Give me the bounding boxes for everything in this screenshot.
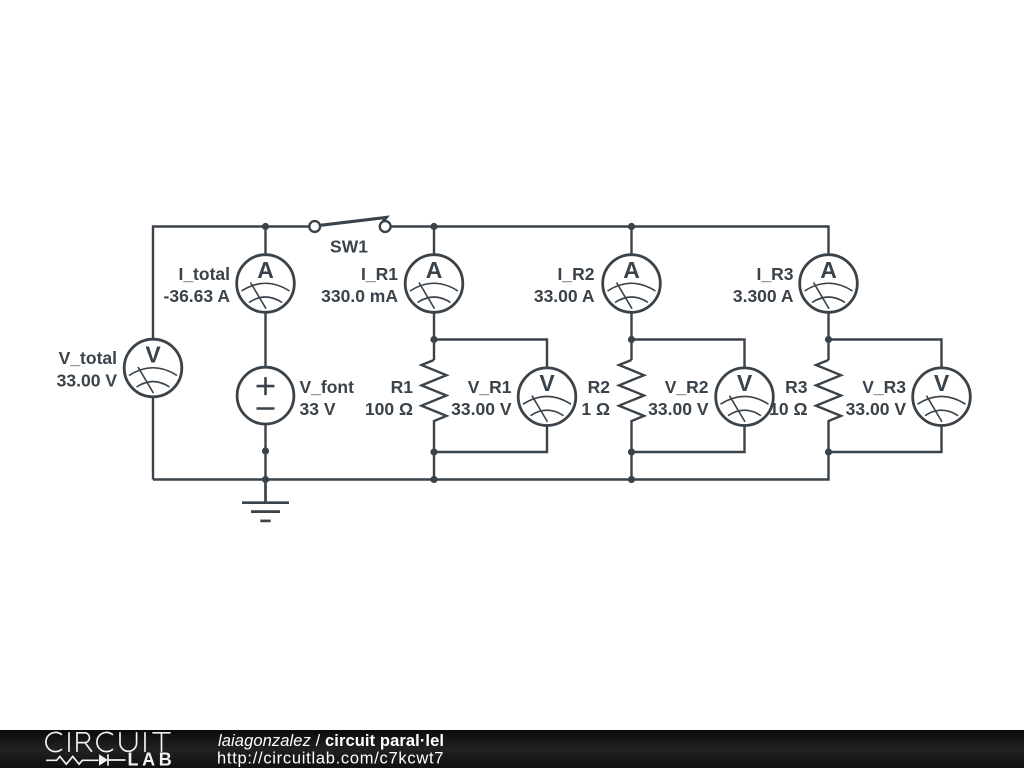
wire V_R2 loop top [632, 340, 745, 368]
junction node top rail R1 [430, 223, 437, 230]
svg-text:10 Ω: 10 Ω [769, 399, 807, 419]
wire branch A ammeter top [264, 227, 266, 255]
svg-text:I_R2: I_R2 [558, 264, 595, 284]
ammeter I_R3 [800, 255, 858, 313]
svg-text:A: A [623, 257, 640, 283]
voltmeter V_total [124, 339, 182, 397]
junction node below source [262, 447, 269, 454]
junction node D top [825, 336, 832, 343]
wire branch C node to rail [630, 452, 632, 480]
svg-text:V: V [539, 370, 555, 396]
svg-text:LAB: LAB [128, 750, 176, 768]
voltage source V_font [237, 367, 294, 424]
ammeter I_R2 [603, 255, 661, 313]
wire left rail upper [153, 227, 309, 340]
svg-text:R3: R3 [785, 377, 808, 397]
ammeter I_total [237, 255, 295, 313]
svg-text:33.00 V: 33.00 V [846, 399, 907, 419]
junction node B bottom [430, 448, 437, 455]
svg-text:3.300 A: 3.300 A [733, 286, 794, 306]
logo resistor-diode squiggle [46, 754, 126, 765]
svg-text:http://circuitlab.com/c7kcwt7: http://circuitlab.com/c7kcwt7 [217, 749, 444, 767]
svg-text:330.0 mA: 330.0 mA [321, 286, 398, 306]
svg-text:SW1: SW1 [330, 237, 368, 257]
switch SW1 [309, 217, 390, 232]
wire branch C top [630, 227, 632, 255]
wire branch C resistor to node [630, 431, 632, 452]
svg-text:V_R3: V_R3 [862, 377, 906, 397]
wire branch D ammeter to node [827, 312, 829, 339]
wire bottom rail [153, 452, 829, 480]
svg-text:1 Ω: 1 Ω [581, 399, 610, 419]
svg-text:I_total: I_total [178, 264, 230, 284]
wire branch A ammeter to source [264, 312, 266, 367]
wire V_R1 loop bottom [434, 426, 547, 452]
junction node bottom rail R2 [628, 476, 635, 483]
svg-text:R2: R2 [588, 377, 611, 397]
svg-text:R1: R1 [391, 377, 414, 397]
wire branch A source to rail [264, 424, 266, 480]
resistor R1 [422, 360, 447, 431]
wire top rail left segment [152, 397, 154, 480]
footer bar [0, 730, 1024, 768]
svg-text:I_R1: I_R1 [361, 264, 398, 284]
svg-text:33 V: 33 V [300, 399, 336, 419]
junction node C top [628, 336, 635, 343]
svg-text:33.00 V: 33.00 V [648, 399, 709, 419]
voltmeter V_R3 [913, 368, 971, 426]
junction node top rail R2 [628, 223, 635, 230]
wire branch B node to resistor [433, 340, 435, 361]
wire branch B top [433, 227, 435, 255]
wire V_R3 loop bottom [829, 426, 942, 452]
junction node C bottom [628, 448, 635, 455]
svg-text:I_R3: I_R3 [757, 264, 794, 284]
svg-text:-36.63 A: -36.63 A [164, 286, 231, 306]
svg-text:33.00 A: 33.00 A [534, 286, 595, 306]
svg-text:V_font: V_font [300, 377, 355, 397]
wire branch C node to resistor [630, 340, 632, 361]
logo CIRCUIT text [46, 732, 170, 751]
wire top rail right of switch [391, 227, 829, 255]
junction node bottom rail R1 [430, 476, 437, 483]
svg-text:V: V [737, 370, 753, 396]
resistor R3 [816, 360, 841, 431]
wire branch B ammeter to node [433, 312, 435, 339]
resistor R2 [619, 360, 644, 431]
junction node top rail I_total [262, 223, 269, 230]
junction node D bottom [825, 448, 832, 455]
svg-text:V_R1: V_R1 [468, 377, 512, 397]
wire V_R2 loop bottom [632, 426, 745, 452]
junction node B top [430, 336, 437, 343]
svg-text:V_total: V_total [59, 348, 117, 368]
svg-text:33.00 V: 33.00 V [451, 399, 512, 419]
svg-text:A: A [426, 257, 443, 283]
wire branch D resistor to node [827, 431, 829, 452]
ground [242, 480, 289, 521]
svg-text:V: V [934, 370, 950, 396]
wire V_R3 loop top [829, 340, 942, 368]
svg-text:33.00 V: 33.00 V [57, 370, 118, 390]
wire branch B node to rail [433, 452, 435, 480]
ammeter I_R1 [405, 255, 463, 313]
wire V_R1 loop top [434, 340, 547, 368]
voltmeter V_R1 [518, 368, 576, 426]
svg-text:laiagonzalez / circuit paral·l: laiagonzalez / circuit paral·lel [218, 732, 444, 750]
svg-text:A: A [257, 257, 274, 283]
voltmeter V_R2 [716, 368, 774, 426]
svg-text:A: A [820, 257, 837, 283]
svg-text:V: V [145, 342, 161, 368]
svg-text:V_R2: V_R2 [665, 377, 709, 397]
wire branch C ammeter to node [630, 312, 632, 339]
wire branch B resistor to node [433, 431, 435, 452]
wire branch D node to resistor [827, 340, 829, 361]
svg-text:100 Ω: 100 Ω [365, 399, 413, 419]
junction node bottom rail ground [262, 476, 269, 483]
